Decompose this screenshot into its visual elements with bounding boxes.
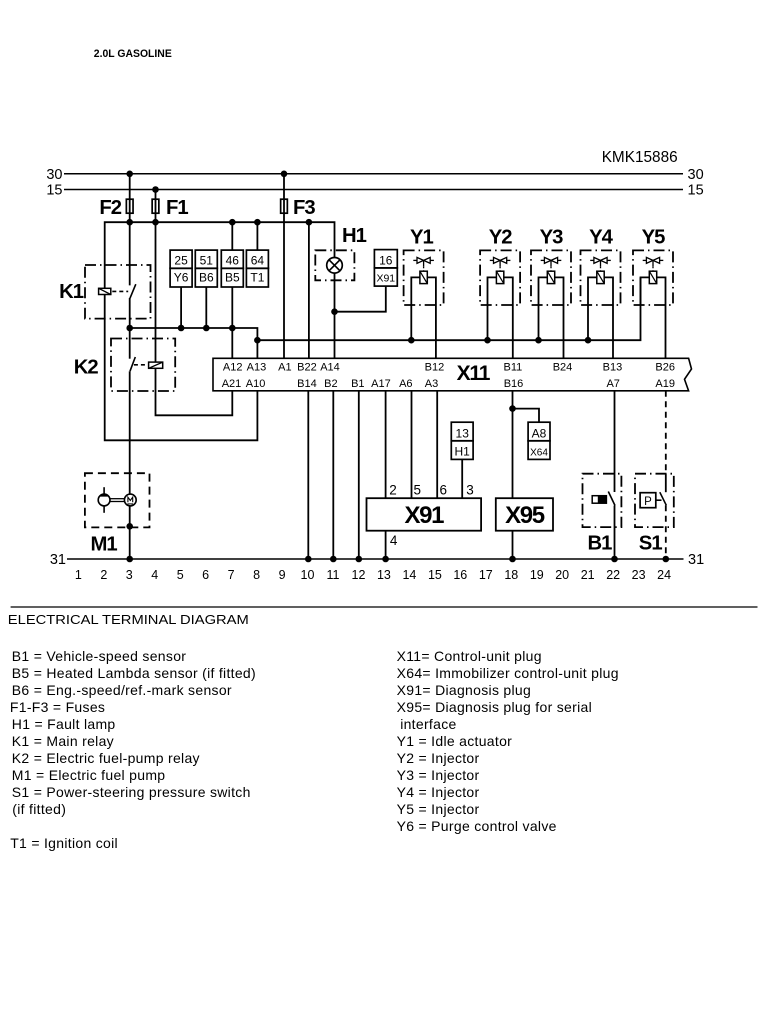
svg-text:M1 = Electric fuel pump: M1 = Electric fuel pump	[12, 767, 166, 783]
wire terminal 16/X91 to H1 node	[335, 286, 386, 312]
svg-text:2: 2	[100, 568, 107, 582]
wire K1 switch to node	[129, 298, 131, 328]
lamp H1 symbol	[327, 258, 343, 274]
wire B5 through rail to X11 pin A12	[231, 287, 233, 358]
svg-text:KMK15886: KMK15886	[602, 149, 678, 166]
svg-text:B16: B16	[504, 378, 524, 390]
svg-text:3: 3	[466, 483, 474, 498]
junction bus31 pin3	[126, 556, 133, 563]
wire X11 A17 to X91 pin 2	[385, 391, 387, 498]
svg-text:X11: X11	[457, 362, 491, 385]
separator rule	[11, 606, 758, 608]
junction H1/X91-16	[331, 308, 338, 315]
connector X11 outline	[213, 358, 692, 391]
svg-text:3: 3	[126, 568, 133, 582]
svg-text:A17: A17	[371, 378, 391, 390]
K2 switch contact	[130, 357, 135, 371]
svg-text:B5: B5	[225, 271, 240, 285]
svg-text:M1: M1	[91, 534, 118, 556]
relay K1 enclosure	[85, 265, 151, 319]
wire S1 internal	[665, 474, 667, 493]
M1 pump symbol	[98, 487, 110, 513]
svg-text:interface: interface	[400, 716, 456, 732]
svg-text:H1: H1	[455, 444, 471, 458]
lamp H1 enclosure	[315, 250, 354, 280]
K1 coil	[99, 288, 111, 294]
svg-text:H1: H1	[342, 225, 367, 247]
junction bus30/F3	[281, 171, 288, 178]
svg-text:Y1: Y1	[410, 226, 434, 248]
svg-text:1: 1	[75, 568, 82, 582]
fuse F1	[152, 199, 159, 213]
svg-text:A3: A3	[425, 378, 438, 390]
svg-text:A7: A7	[606, 378, 619, 390]
M1 link	[110, 499, 124, 502]
terminal box B6	[195, 268, 217, 287]
svg-text:F2: F2	[99, 197, 121, 219]
wire injector supply rail to Y5	[257, 277, 640, 340]
svg-text:F1-F3 = Fuses: F1-F3 = Fuses	[10, 699, 105, 715]
terminal box 16	[374, 250, 397, 268]
svg-text:H1 = Fault lamp: H1 = Fault lamp	[12, 716, 116, 732]
junction rail/terminal 46	[229, 219, 236, 226]
svg-text:Y6 = Purge control valve: Y6 = Purge control valve	[397, 818, 557, 834]
S1 pressure symbol box	[640, 493, 656, 508]
wire fuse output rail to K1 coil and H1 lamp	[105, 222, 335, 288]
svg-text:A8: A8	[532, 426, 547, 440]
M1 motor symbol	[124, 494, 136, 506]
junction rail/B6	[203, 325, 210, 332]
junction B16/A8	[509, 405, 516, 412]
junction bus31 pin11	[330, 556, 337, 563]
junction bus31 pin12	[356, 556, 363, 563]
junction bus15/F1	[152, 186, 159, 193]
junction rail/Y2	[484, 337, 491, 344]
svg-text:18: 18	[504, 568, 518, 582]
svg-text:X11= Control-unit plug: X11= Control-unit plug	[397, 648, 542, 664]
junction bus31 pin13	[382, 556, 389, 563]
svg-text:Y1 = Idle actuator: Y1 = Idle actuator	[397, 733, 513, 749]
junction rail/Y4	[585, 337, 592, 344]
svg-text:A1: A1	[278, 361, 291, 373]
B1 sensor symbol fill	[598, 496, 607, 504]
svg-text:64: 64	[251, 254, 265, 268]
K2 coil	[149, 362, 163, 368]
svg-text:4: 4	[390, 533, 398, 548]
bus 15 wire	[64, 189, 683, 191]
terminal box B5	[221, 268, 243, 287]
B1 switch contact	[608, 492, 615, 506]
svg-text:2: 2	[389, 483, 397, 498]
wire F3 to X11 pin A1	[283, 174, 285, 358]
svg-text:7: 7	[228, 568, 235, 582]
svg-text:ELECTRICAL TERMINAL DIAGRAM: ELECTRICAL TERMINAL DIAGRAM	[8, 612, 249, 627]
svg-text:K1 = Main relay: K1 = Main relay	[12, 733, 114, 749]
svg-text:F3: F3	[293, 197, 315, 219]
wire X11 B14 to bus 31	[307, 391, 309, 559]
svg-text:B13: B13	[603, 361, 623, 373]
svg-text:A14: A14	[320, 361, 340, 373]
legend left column	[10, 648, 256, 851]
svg-text:23: 23	[632, 568, 646, 582]
legend right column	[397, 648, 619, 834]
junction rail/terminal 64	[254, 219, 261, 226]
terminal box T1	[246, 268, 268, 287]
sensor B1 enclosure	[583, 474, 622, 527]
wire rail to terminal 46	[231, 222, 233, 250]
wire F1 to K2 coil	[155, 190, 157, 363]
svg-text:B1: B1	[351, 378, 364, 390]
wire terminal 13/H1 to X91 pin 3	[461, 459, 463, 497]
svg-text:B1 = Vehicle-speed sensor: B1 = Vehicle-speed sensor	[12, 648, 186, 664]
svg-text:20: 20	[555, 568, 569, 582]
wire K1 coil to X11 pin A10	[105, 295, 258, 441]
terminal box X64 pin	[528, 441, 550, 460]
junction bus31 pin10	[305, 556, 312, 563]
terminal box Y6	[170, 268, 192, 287]
svg-text:5: 5	[414, 483, 422, 498]
svg-text:11: 11	[327, 568, 340, 582]
wire node to K2 switch	[129, 328, 131, 359]
wire K2 switch through M1 to bus 31	[129, 371, 131, 559]
svg-text:B1: B1	[588, 533, 613, 555]
svg-text:9: 9	[279, 568, 286, 582]
plug X91	[367, 498, 482, 531]
plug X95	[496, 498, 553, 531]
svg-text:46: 46	[226, 254, 240, 268]
svg-text:Y4: Y4	[589, 226, 614, 248]
svg-text:Y3: Y3	[540, 226, 564, 248]
svg-text:Y5: Y5	[642, 226, 666, 248]
svg-text:30: 30	[46, 167, 62, 183]
svg-text:B22: B22	[297, 361, 317, 373]
junction rail/F1	[152, 219, 159, 226]
svg-text:X95: X95	[505, 502, 545, 529]
svg-text:31: 31	[688, 552, 704, 568]
svg-text:A13: A13	[247, 361, 267, 373]
svg-text:30: 30	[688, 167, 704, 183]
svg-text:24: 24	[657, 568, 671, 582]
svg-text:2.0L GASOLINE: 2.0L GASOLINE	[94, 48, 172, 60]
K2 mechanical link	[134, 364, 147, 366]
svg-text:A21: A21	[222, 378, 242, 390]
junction rail/injector rail/A13	[254, 337, 261, 344]
wire F2 to K1 switch	[129, 174, 131, 286]
svg-text:22: 22	[606, 568, 620, 582]
svg-text:13: 13	[456, 426, 470, 440]
svg-text:51: 51	[200, 254, 214, 268]
wire X91 pin 4 to bus 31	[385, 531, 387, 559]
junction bus31 pin24	[663, 556, 670, 563]
terminal box 46	[221, 250, 243, 268]
svg-text:X95= Diagnosis plug for serial: X95= Diagnosis plug for serial	[397, 699, 592, 715]
bus 31 wire	[67, 558, 684, 560]
svg-text:17: 17	[479, 568, 493, 582]
svg-text:Y5 = Injector: Y5 = Injector	[397, 801, 480, 817]
wire rail to X11 pin B22	[308, 222, 310, 358]
svg-text:25: 25	[174, 254, 188, 268]
B1 sensor symbol	[592, 496, 606, 504]
svg-text:X91: X91	[376, 273, 395, 285]
svg-text:31: 31	[50, 552, 66, 568]
svg-text:16: 16	[379, 254, 393, 268]
svg-text:8: 8	[253, 568, 260, 582]
svg-text:A12: A12	[223, 361, 243, 373]
wire node to X11 pin A13	[256, 340, 258, 358]
svg-text:Y6: Y6	[174, 271, 189, 285]
terminal box 13	[451, 422, 473, 441]
svg-text:T1 = Ignition coil: T1 = Ignition coil	[10, 835, 118, 851]
svg-text:S1 = Power-steering pressure s: S1 = Power-steering pressure switch	[12, 784, 251, 800]
terminal box A8	[528, 422, 550, 441]
terminal box 64	[246, 250, 268, 268]
valve Y5	[633, 226, 673, 358]
junction K1/K2/M1 node	[126, 325, 133, 332]
svg-text:B2: B2	[324, 378, 337, 390]
svg-text:6: 6	[440, 483, 448, 498]
wire H1 lamp to X11 pin A14	[334, 273, 336, 358]
svg-text:15: 15	[46, 183, 62, 199]
junction rail/F2	[126, 219, 133, 226]
svg-text:X64= Immobilizer control-unit: X64= Immobilizer control-unit plug	[397, 665, 619, 681]
svg-text:Y2: Y2	[489, 226, 513, 248]
terminal box 51	[195, 250, 217, 268]
svg-text:X91= Diagnosis plug: X91= Diagnosis plug	[397, 682, 532, 698]
wire terminal A8/X64 to B16 wire	[513, 409, 540, 423]
svg-text:21: 21	[581, 568, 595, 582]
fuse F2	[126, 199, 133, 213]
svg-text:15: 15	[428, 568, 442, 582]
junction rail/Y3	[535, 337, 542, 344]
svg-text:4: 4	[151, 568, 158, 582]
K2 coil diagonal	[149, 362, 163, 368]
wire X11 A6 to X91 pin 5	[411, 391, 413, 498]
svg-text:A19: A19	[655, 378, 675, 390]
svg-text:Y3 = Injector: Y3 = Injector	[397, 767, 480, 783]
wire rail to terminal 64	[256, 222, 258, 250]
svg-text:X91: X91	[405, 502, 445, 529]
K1 switch contact	[130, 284, 136, 298]
S1 switch contact	[660, 492, 667, 505]
svg-text:A6: A6	[399, 378, 412, 390]
svg-text:K2 = Electric fuel-pump relay: K2 = Electric fuel-pump relay	[12, 750, 200, 766]
svg-text:5: 5	[177, 568, 184, 582]
terminal box H1 pin	[451, 441, 473, 460]
wire X11 B16 to X95	[512, 391, 514, 498]
wire B6 to rail	[205, 287, 207, 328]
valve Y1	[404, 226, 444, 358]
svg-text:B6 = Eng.-speed/ref.-mark sens: B6 = Eng.-speed/ref.-mark sensor	[12, 682, 232, 698]
wire B1 to bus 31	[614, 506, 616, 560]
junction rail/B22	[306, 219, 313, 226]
wire X11 B1 to bus 31	[358, 391, 360, 559]
valve Y4	[581, 226, 621, 358]
svg-text:B14: B14	[297, 378, 317, 390]
terminal number scale 1-24	[75, 568, 671, 582]
K1 coil diagonal	[99, 288, 111, 294]
svg-text:14: 14	[402, 568, 416, 582]
bus 30 wire	[64, 173, 683, 175]
K1 mechanical link	[112, 290, 128, 292]
svg-text:A10: A10	[246, 378, 266, 390]
svg-text:Y2 = Injector: Y2 = Injector	[397, 750, 480, 766]
valve Y2	[480, 226, 520, 358]
wire S1 to bus 31 (dashed)	[665, 505, 667, 559]
junction rail/Y6	[178, 325, 185, 332]
svg-text:B11: B11	[504, 361, 523, 373]
pump M1 enclosure	[85, 473, 150, 527]
svg-text:B6: B6	[199, 271, 214, 285]
svg-text:T1: T1	[250, 271, 264, 285]
svg-text:13: 13	[377, 568, 391, 582]
svg-text:16: 16	[453, 568, 467, 582]
svg-text:F1: F1	[166, 197, 188, 219]
junction bus30/F2	[126, 171, 133, 178]
svg-text:B26: B26	[655, 361, 675, 373]
wire X95 to bus 31	[512, 531, 514, 559]
wire X11 B2 to bus 31	[332, 391, 334, 559]
switch S1 enclosure	[635, 474, 674, 527]
junction M1 box bottom	[126, 523, 133, 530]
svg-text:(if fitted): (if fitted)	[12, 801, 66, 817]
svg-text:B5 = Heated Lambda sensor (if: B5 = Heated Lambda sensor (if fitted)	[12, 665, 256, 681]
svg-text:B12: B12	[425, 361, 445, 373]
svg-text:15: 15	[688, 183, 704, 199]
fuse F3	[281, 199, 288, 213]
svg-text:6: 6	[202, 568, 209, 582]
terminal box X91 pin	[374, 268, 397, 286]
svg-text:K2: K2	[74, 357, 99, 379]
S1 link wire	[656, 499, 662, 501]
wire Y6 to rail	[180, 287, 182, 328]
junction rail/Y1	[408, 337, 415, 344]
wire X11 A19 to S1 (dashed)	[665, 391, 667, 474]
svg-text:Y4 = Injector: Y4 = Injector	[397, 784, 480, 800]
valve Y3	[531, 226, 571, 358]
wire K2 coil to X11 pin A21	[156, 368, 233, 415]
wire switched supply rail	[130, 328, 258, 340]
terminal box 25	[170, 250, 192, 268]
svg-text:B24: B24	[553, 361, 573, 373]
wire X11 A3 to X91 pin 6	[436, 391, 438, 498]
svg-text:K1: K1	[59, 281, 84, 303]
junction bus31 pin22	[611, 556, 618, 563]
wire X11 A7 to B1 switch	[614, 391, 616, 492]
svg-text:P: P	[644, 496, 652, 508]
svg-text:10: 10	[301, 568, 315, 582]
junction rail/B5	[229, 325, 236, 332]
svg-text:19: 19	[530, 568, 544, 582]
svg-text:12: 12	[352, 568, 366, 582]
relay K2 enclosure	[111, 339, 175, 392]
svg-text:X64: X64	[530, 447, 548, 458]
svg-text:S1: S1	[639, 533, 663, 555]
junction bus31 pin18	[509, 556, 516, 563]
